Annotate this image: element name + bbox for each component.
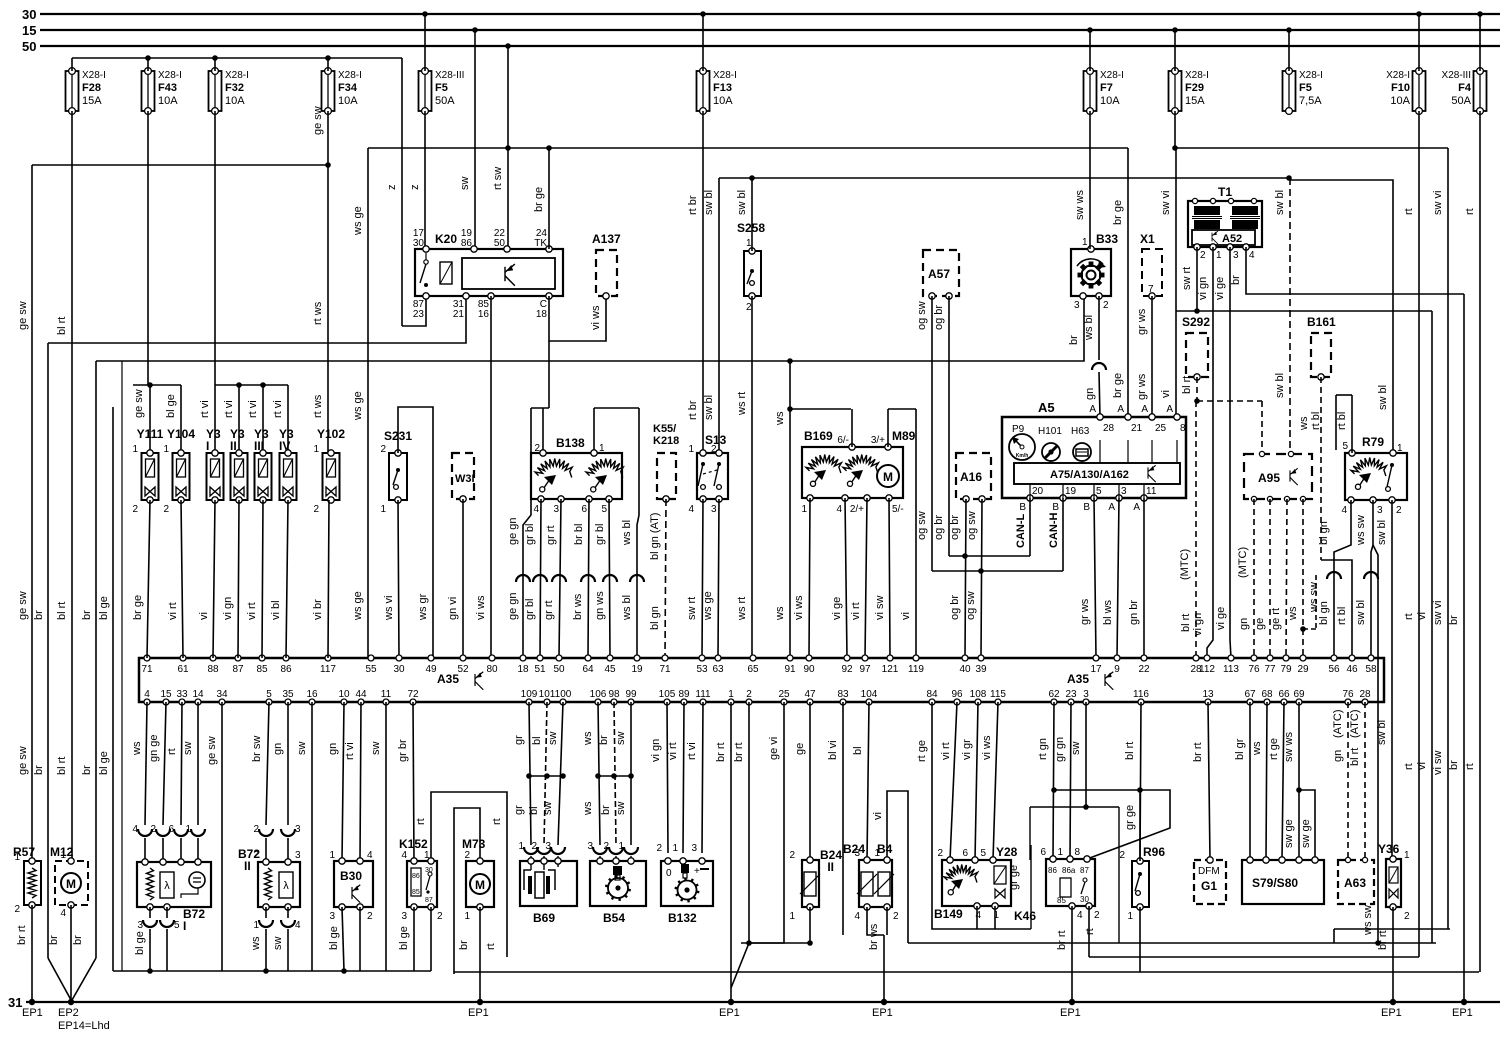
wire sw vi F29 to A5 pin8 — [1174, 111, 1176, 148]
wire B30 pin2 down — [359, 907, 361, 971]
svg-text:1: 1 — [599, 443, 605, 454]
svg-text:3: 3 — [295, 824, 301, 835]
svg-text:F13: F13 — [713, 82, 732, 94]
valve Y102 — [323, 453, 340, 500]
svg-text:λ: λ — [164, 880, 170, 892]
valve Y3 I — [207, 453, 224, 500]
svg-text:ws vi: ws vi — [383, 596, 395, 621]
svg-text:z: z — [409, 185, 421, 191]
svg-text:vi: vi — [900, 612, 912, 620]
wire bl ge column x113 — [112, 407, 114, 971]
wire rt br F13 to S13 — [702, 111, 704, 453]
svg-text:87: 87 — [1080, 866, 1089, 875]
svg-text:br ge: br ge — [1112, 373, 1124, 398]
svg-text:3: 3 — [711, 504, 717, 515]
sensor B54 — [590, 861, 646, 906]
svg-text:85: 85 — [256, 664, 268, 675]
svg-text:X28-I: X28-I — [1386, 70, 1410, 81]
svg-text:B54: B54 — [603, 911, 625, 925]
wire R57 pin2 br rt to EP1 — [31, 905, 33, 1002]
svg-text:ge vi: ge vi — [768, 737, 780, 760]
svg-text:104: 104 — [861, 689, 878, 700]
svg-text:44: 44 — [355, 689, 367, 700]
svg-text:18: 18 — [517, 664, 529, 675]
svg-text:4: 4 — [132, 824, 138, 835]
wire B149 pins to ground — [976, 906, 978, 929]
svg-text:6/-: 6/- — [837, 435, 849, 446]
svg-text:vi sw: vi sw — [874, 596, 886, 621]
svg-text:II: II — [244, 859, 251, 873]
svg-text:52: 52 — [457, 664, 469, 675]
svg-text:vi: vi — [1416, 762, 1428, 770]
svg-text:EP1: EP1 — [719, 1007, 740, 1019]
wire K20 C18 and A137 join — [549, 296, 606, 341]
svg-text:rt: rt — [1464, 208, 1476, 215]
svg-text:br: br — [81, 610, 93, 620]
svg-text:K20: K20 — [435, 232, 457, 246]
svg-text:vi ge: vi ge — [1215, 607, 1227, 630]
svg-text:br: br — [1448, 760, 1460, 770]
svg-text:rt vi: rt vi — [686, 742, 698, 760]
svg-text:EP14=Lhd: EP14=Lhd — [58, 1020, 110, 1032]
svg-text:1: 1 — [464, 911, 470, 922]
wire B169 pin1 to pin90 — [809, 498, 810, 658]
svg-text:3: 3 — [1377, 505, 1383, 516]
svg-text:98: 98 — [608, 689, 620, 700]
wire pin33 to B72 — [181, 702, 182, 825]
svg-text:sw rt: sw rt — [1181, 267, 1193, 290]
svg-text:br: br — [48, 935, 60, 945]
svg-text:R96: R96 — [1143, 845, 1165, 859]
svg-text:sw ge: sw ge — [1283, 819, 1295, 848]
svg-text:ws bl: ws bl — [1083, 315, 1095, 341]
svg-text:vi bl: vi bl — [270, 600, 282, 620]
svg-text:gr ge: gr ge — [1124, 805, 1136, 830]
wire pin1 br rt to EP1 — [730, 702, 732, 1002]
svg-text:B69: B69 — [533, 911, 555, 925]
wire pins 105 89 111 to B132 — [667, 702, 668, 853]
svg-text:gn: gn — [1084, 388, 1096, 400]
wire og sw from A57 — [931, 296, 933, 571]
svg-text:83: 83 — [837, 689, 849, 700]
svg-text:1: 1 — [1127, 911, 1133, 922]
svg-text:sw: sw — [459, 177, 471, 191]
wire K20 87/23 jog — [402, 296, 426, 326]
svg-text:EP1: EP1 — [1381, 1007, 1402, 1019]
ground EP1 M73 — [477, 999, 483, 1005]
svg-text:bl rt: bl rt — [56, 757, 68, 775]
svg-text:gn: gn — [272, 743, 284, 755]
svg-text:A: A — [1141, 404, 1148, 415]
svg-text:4: 4 — [367, 850, 373, 861]
svg-text:1: 1 — [518, 841, 524, 852]
fuse F28 15A — [66, 71, 79, 111]
svg-text:2: 2 — [1200, 250, 1206, 261]
svg-text:A35: A35 — [437, 672, 459, 686]
resistor R57 — [24, 861, 41, 905]
svg-text:50: 50 — [494, 238, 506, 249]
wire pin84 rt ge — [932, 702, 1031, 929]
svg-text:rt vi: rt vi — [247, 400, 259, 418]
svg-text:49: 49 — [425, 664, 437, 675]
svg-text:gr: gr — [513, 735, 525, 745]
svg-text:87: 87 — [425, 897, 433, 904]
fuse F5 50A — [419, 71, 432, 111]
svg-text:ge gn: ge gn — [507, 592, 519, 620]
wire pin14 to B72 — [197, 702, 199, 825]
svg-text:ge sw: ge sw — [312, 106, 324, 135]
lambda probe B72 II — [258, 862, 300, 907]
glow plug W3I — [452, 453, 474, 499]
svg-text:gr rt: gr rt — [543, 600, 555, 620]
svg-text:vi gn: vi gn — [1192, 613, 1204, 636]
svg-text:76: 76 — [1248, 664, 1260, 675]
svg-text:71: 71 — [659, 664, 671, 675]
svg-text:bl ge: bl ge — [328, 926, 340, 950]
svg-text:gn ws: gn ws — [594, 591, 606, 620]
svg-text:F34: F34 — [338, 82, 358, 94]
svg-text:2: 2 — [253, 850, 259, 861]
svg-text:80: 80 — [486, 664, 498, 675]
svg-text:gn br: gn br — [1128, 600, 1140, 625]
wire A95 to pin77 dashed — [1269, 499, 1271, 658]
wire B72II pin1 ws down — [265, 907, 267, 918]
svg-text:rt sw: rt sw — [492, 167, 504, 190]
wire M73 pin1 br to EP1 — [479, 907, 481, 1002]
svg-text:15: 15 — [22, 23, 36, 38]
svg-text:46: 46 — [1346, 664, 1358, 675]
wire R79 pin2 sw bl down to Y36 — [1391, 500, 1393, 859]
svg-text:2: 2 — [253, 824, 259, 835]
wire B33 pin2 ws bl to A5 — [1098, 296, 1100, 360]
svg-text:I: I — [206, 439, 209, 453]
svg-text:III: III — [254, 439, 264, 453]
ground EP2 — [68, 999, 74, 1005]
wire F5 7.5A to bus 15 — [1286, 27, 1292, 33]
svg-text:rt: rt — [1403, 208, 1415, 215]
wire B169 pin2 to pin97 — [865, 498, 867, 658]
svg-text:39: 39 — [975, 664, 987, 675]
svg-text:1: 1 — [728, 689, 734, 700]
svg-text:TK: TK — [534, 238, 547, 249]
driver stage A52 — [1192, 230, 1255, 245]
svg-text:rt: rt — [1403, 763, 1415, 770]
svg-text:rt vi: rt vi — [272, 400, 284, 418]
svg-text:sw vi: sw vi — [1432, 191, 1444, 215]
svg-text:47: 47 — [804, 689, 816, 700]
svg-text:M: M — [883, 470, 893, 484]
svg-text:3: 3 — [691, 843, 697, 854]
svg-text:ws gr: ws gr — [417, 593, 429, 621]
svg-text:2: 2 — [132, 504, 138, 515]
svg-text:sw bl: sw bl — [1376, 520, 1388, 545]
svg-text:EP2: EP2 — [58, 1007, 79, 1019]
svg-text:20: 20 — [1032, 486, 1044, 497]
svg-text:B33: B33 — [1096, 232, 1118, 246]
svg-text:61: 61 — [177, 664, 189, 675]
wire pin23 to K46 — [1070, 702, 1071, 859]
svg-text:sw: sw — [615, 732, 627, 746]
svg-text:S292: S292 — [1182, 315, 1210, 329]
svg-text:rt: rt — [485, 943, 497, 950]
svg-text:λ: λ — [283, 880, 289, 892]
svg-text:bl gn: bl gn — [1318, 521, 1330, 545]
svg-text:br: br — [33, 765, 45, 775]
ground EP1 K46 — [1069, 999, 1075, 1005]
svg-text:br ws: br ws — [868, 923, 880, 950]
svg-text:ws ge: ws ge — [352, 391, 364, 421]
wire sw from bus15 to K20 — [472, 27, 478, 33]
svg-text:71: 71 — [141, 664, 153, 675]
wire F7 to B33 pin1 — [1089, 111, 1091, 249]
svg-text:1: 1 — [163, 444, 169, 455]
svg-text:19: 19 — [631, 664, 643, 675]
svg-text:CAN-H: CAN-H — [1048, 513, 1060, 548]
wire pin44 to B30 — [360, 702, 361, 861]
relay K46 — [1046, 859, 1095, 906]
svg-text:EP1: EP1 — [872, 1007, 893, 1019]
wire Y3 I to pin88 — [213, 500, 215, 658]
svg-text:(ATC): (ATC) — [1349, 709, 1361, 738]
svg-text:X28-I: X28-I — [82, 70, 106, 81]
svg-text:X1: X1 — [1140, 232, 1155, 246]
svg-text:23: 23 — [1065, 689, 1077, 700]
temperature sensor B24 II — [802, 860, 819, 907]
svg-text:vi gn: vi gn — [1197, 277, 1209, 300]
wire S292 to pin28 dashed — [1195, 401, 1197, 658]
svg-text:3: 3 — [1074, 300, 1080, 311]
svg-text:A63: A63 — [1344, 876, 1366, 890]
svg-text:2: 2 — [150, 824, 156, 835]
sensor B69 — [520, 861, 577, 906]
svg-text:bl rt: bl rt — [56, 602, 68, 620]
svg-text:4: 4 — [854, 911, 860, 922]
svg-text:B132: B132 — [668, 911, 697, 925]
svg-text:15A: 15A — [1185, 95, 1205, 107]
svg-text:87: 87 — [232, 664, 244, 675]
sensor B161 — [1311, 333, 1331, 377]
wire sw bl dashed from y178 — [1289, 178, 1291, 430]
svg-text:K46: K46 — [1014, 909, 1036, 923]
svg-text:br: br — [1448, 615, 1460, 625]
svg-text:gr gn: gr gn — [1054, 737, 1066, 762]
svg-text:og sw: og sw — [916, 301, 928, 330]
svg-text:sw bl: sw bl — [1376, 720, 1388, 745]
connector X1 — [1142, 249, 1162, 296]
wire K152 pin2 down — [430, 907, 432, 971]
svg-text:Y36: Y36 — [1378, 842, 1400, 856]
svg-text:29: 29 — [1297, 664, 1309, 675]
enclosure line x122 — [121, 361, 123, 971]
svg-text:2: 2 — [437, 911, 443, 922]
wire pin16 sw down — [311, 702, 313, 971]
svg-text:A57: A57 — [928, 267, 950, 281]
wire A5 pin11 to pin22 — [1143, 498, 1145, 658]
svg-text:br: br — [81, 765, 93, 775]
wire S231 pin2 loop to pin49 — [398, 407, 433, 658]
svg-text:30: 30 — [22, 7, 36, 22]
svg-text:ge: ge — [1254, 618, 1266, 630]
svg-text:sw bl: sw bl — [1274, 190, 1286, 215]
svg-text:B: B — [1052, 502, 1059, 513]
wire F5 50A to bus 30 — [422, 11, 428, 17]
svg-text:gr bl: gr bl — [524, 599, 536, 620]
svg-text:Y28: Y28 — [996, 845, 1018, 859]
svg-text:30: 30 — [393, 664, 405, 675]
svg-text:EP1: EP1 — [1060, 1007, 1081, 1019]
svg-text:bl rt: bl rt — [1124, 742, 1136, 760]
wire F29 to bus 15 — [1172, 27, 1178, 33]
svg-text:bl ge: bl ge — [98, 751, 110, 775]
svg-text:62: 62 — [1048, 689, 1060, 700]
svg-text:sw ws: sw ws — [1283, 732, 1295, 762]
svg-text:ws bl: ws bl — [621, 520, 633, 546]
svg-text:bl ge: bl ge — [398, 926, 410, 950]
svg-text:2: 2 — [789, 850, 795, 861]
svg-text:2: 2 — [531, 841, 537, 852]
svg-text:gr ws: gr ws — [1079, 598, 1091, 625]
svg-text:br: br — [72, 935, 84, 945]
svg-text:121: 121 — [882, 664, 899, 675]
svg-text:1: 1 — [329, 850, 335, 861]
svg-text:gr ge: gr ge — [1008, 865, 1020, 890]
svg-text:2: 2 — [656, 843, 662, 854]
wire B138 pin5 to pin45 — [609, 499, 610, 658]
svg-text:64: 64 — [582, 664, 594, 675]
svg-text:9: 9 — [1114, 664, 1120, 675]
indicator H63 — [1073, 443, 1091, 461]
svg-text:63: 63 — [712, 664, 724, 675]
wire pin47 to B24II — [809, 702, 811, 860]
svg-text:sw ge: sw ge — [1300, 819, 1312, 848]
svg-text:R79: R79 — [1362, 435, 1384, 449]
svg-text:ws rt: ws rt — [736, 392, 748, 416]
svg-text:vi rt: vi rt — [246, 602, 258, 620]
wire B24II pin1 down — [809, 907, 811, 943]
wire sw bl to S13 pin2 — [718, 178, 720, 453]
svg-text:69: 69 — [1293, 689, 1305, 700]
svg-text:bl vi: bl vi — [827, 740, 839, 760]
switch S231 — [389, 453, 407, 500]
svg-text:og sw: og sw — [916, 511, 928, 540]
svg-text:3: 3 — [587, 841, 593, 852]
svg-text:(ATC): (ATC) — [1332, 709, 1344, 738]
wire og junction horizontals — [949, 555, 1030, 557]
wire pin115 to Y28 — [993, 702, 998, 860]
wire pin25 ge vi down — [749, 702, 784, 943]
svg-text:vi rt: vi rt — [667, 742, 679, 760]
wire F43 to Y111/Y104 feed — [147, 111, 149, 385]
svg-text:vi ge: vi ge — [1214, 277, 1226, 300]
wire trunk y943 — [908, 942, 1436, 944]
wire T1 pin4 br to right column — [1246, 247, 1464, 294]
svg-text:rt br: rt br — [687, 195, 699, 215]
svg-text:85: 85 — [412, 889, 420, 896]
svg-text:gr ws: gr ws — [1136, 373, 1148, 400]
svg-text:bl gn (AT): bl gn (AT) — [649, 513, 661, 560]
svg-text:21: 21 — [1131, 423, 1143, 434]
motor M73 — [466, 861, 494, 907]
svg-text:16: 16 — [306, 689, 318, 700]
svg-text:4: 4 — [295, 920, 301, 931]
wire F34 to Y102 — [327, 111, 329, 453]
motor M12 — [55, 861, 88, 905]
switch unit S79/S80 — [1242, 860, 1324, 904]
svg-text:111: 111 — [695, 689, 711, 700]
svg-text:vi ws: vi ws — [793, 595, 805, 620]
wire ws sw down to trunk — [1373, 545, 1378, 943]
wire A16 og br to pin40 — [965, 499, 966, 658]
svg-text:ws: ws — [582, 731, 594, 746]
fuse F29 15A — [1169, 71, 1182, 111]
svg-text:X28-III: X28-III — [435, 70, 464, 81]
svg-text:28: 28 — [1103, 423, 1115, 434]
svg-text:19: 19 — [1065, 486, 1077, 497]
svg-text:2: 2 — [163, 504, 169, 515]
svg-text:ws rt: ws rt — [736, 597, 748, 621]
svg-text:bl gn: bl gn — [1318, 601, 1330, 625]
svg-text:13: 13 — [1202, 689, 1214, 700]
svg-text:vi rt: vi rt — [850, 602, 862, 620]
svg-text:3: 3 — [1233, 250, 1239, 261]
wire A5 pin5 to pin17 — [1094, 498, 1096, 658]
svg-text:76: 76 — [1342, 689, 1354, 700]
wire rt F10 down — [1418, 111, 1420, 957]
svg-text:4: 4 — [1077, 910, 1083, 921]
svg-text:2: 2 — [1103, 300, 1109, 311]
switch S292 — [1186, 333, 1208, 377]
wire K46 pin2 rt down — [1088, 906, 1090, 957]
svg-text:Y102: Y102 — [317, 427, 345, 441]
svg-text:77: 77 — [1264, 664, 1276, 675]
svg-text:br ge: br ge — [1112, 200, 1124, 225]
svg-text:gr br: gr br — [397, 739, 409, 762]
svg-text:86: 86 — [461, 238, 473, 249]
wire B169 pin5 to pin121 — [889, 498, 890, 658]
svg-text:rt vi: rt vi — [199, 400, 211, 418]
svg-text:vi: vi — [1160, 390, 1172, 398]
svg-text:4: 4 — [1341, 505, 1347, 516]
svg-text:34: 34 — [216, 689, 228, 700]
svg-text:br rt: br rt — [733, 742, 745, 762]
svg-text:vi rt: vi rt — [167, 602, 179, 620]
svg-text:7,5A: 7,5A — [1299, 95, 1322, 107]
svg-text:50: 50 — [22, 39, 36, 54]
wire pin10 to B30 — [342, 702, 344, 861]
fuse F34 10A — [322, 71, 335, 111]
svg-text:ws: ws — [1251, 741, 1263, 756]
wire pin5 to B72II — [266, 702, 269, 825]
svg-text:br: br — [1068, 335, 1080, 345]
svg-text:6: 6 — [1040, 847, 1046, 858]
wire Y3 III to pin85 — [262, 500, 263, 658]
svg-text:35: 35 — [282, 689, 294, 700]
svg-text:gr bl: gr bl — [594, 524, 606, 545]
svg-text:105: 105 — [659, 689, 676, 700]
svg-text:bl ge: bl ge — [165, 394, 177, 418]
wire R79 pin4 bl gn to pin56 — [1334, 500, 1351, 658]
svg-text:1: 1 — [185, 824, 191, 835]
svg-text:17: 17 — [1090, 664, 1102, 675]
svg-text:F32: F32 — [225, 82, 244, 94]
svg-text:S79/S80: S79/S80 — [1252, 876, 1298, 890]
svg-text:br rt: br rt — [1192, 742, 1204, 762]
ground EP1 left — [29, 999, 35, 1005]
svg-text:1: 1 — [60, 850, 66, 861]
svg-text:P9: P9 — [1012, 424, 1025, 435]
svg-text:92: 92 — [841, 664, 853, 675]
sensor B149 with valve Y28 — [942, 860, 1011, 906]
